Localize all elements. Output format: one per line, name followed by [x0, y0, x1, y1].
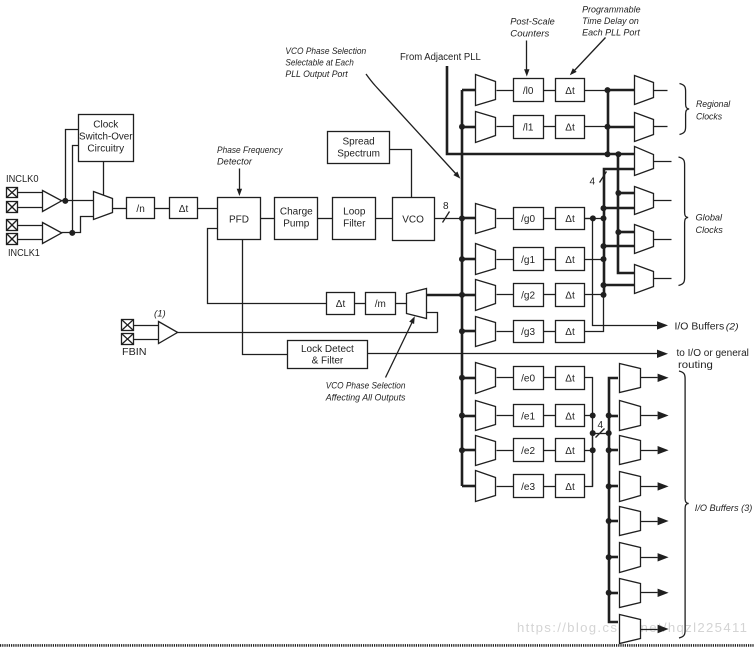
- node junction V2 gmux3: [615, 229, 621, 235]
- svg-text:Δt: Δt: [565, 446, 575, 457]
- mux /g3 phase-select: [476, 317, 496, 347]
- node junction l1: [605, 124, 611, 130]
- arrow I/O buffer output 5: [658, 553, 669, 561]
- svg-text:Affecting All Outputs: Affecting All Outputs: [325, 393, 406, 404]
- svg-text:VCO Phase Selection: VCO Phase Selection: [326, 381, 406, 392]
- svg-text:Programmable: Programmable: [582, 5, 641, 16]
- svg-text:INCLK0: INCLK0: [6, 174, 39, 185]
- svg-text:INCLK1: INCLK1: [8, 248, 40, 259]
- svg-text:VCO: VCO: [402, 215, 424, 226]
- node bus junction /e0: [459, 375, 465, 381]
- delta-t delay /l1: [556, 116, 585, 139]
- svg-text:Δt: Δt: [565, 374, 575, 385]
- svg-text:/g1: /g1: [521, 255, 535, 266]
- mux /g1 phase-select: [476, 244, 496, 275]
- svg-text:Clocks: Clocks: [696, 225, 723, 236]
- wire /g2 mux to counter: [497, 294, 514, 296]
- node junction V3 gmux4: [601, 282, 607, 288]
- svg-text:Δt: Δt: [565, 86, 575, 97]
- wire /e1 counter to delta-t: [544, 415, 556, 417]
- wire global vertical V3 internal-feed: [604, 169, 634, 296]
- node junction V3 gmux3: [601, 243, 607, 249]
- pad FBIN n-input: [122, 334, 134, 345]
- svg-text:8: 8: [443, 201, 449, 212]
- svg-text:FBIN: FBIN: [122, 347, 147, 358]
- wire I/O buffer output 4: [641, 521, 658, 523]
- svg-text:Spectrum: Spectrum: [337, 149, 380, 160]
- node junction adjacent-V2: [615, 151, 621, 157]
- annotation arrow to /l0: [526, 41, 528, 71]
- wire V3 to global mux 2 lower: [604, 207, 634, 210]
- wire FBIN pad2 to buffer: [134, 339, 159, 341]
- delta-t delay /g1: [556, 248, 585, 271]
- wire I/O buffer output 7: [641, 629, 658, 631]
- svg-text:Δt: Δt: [565, 123, 575, 134]
- mux regional clock output 1: [635, 113, 654, 142]
- mux regional clock output 0: [635, 76, 654, 105]
- wire Lock Detect to I/O routing arrow: [368, 353, 658, 355]
- wire /e2 counter to delta-t: [544, 450, 556, 452]
- node junction V3 g2: [601, 292, 607, 298]
- mux /e1 phase-select: [476, 401, 496, 431]
- wire FBIN pad1 to buffer: [134, 325, 159, 327]
- node bus junction /g3: [459, 328, 465, 334]
- node junction V3 g1: [601, 256, 607, 262]
- wire /g2 output to V3: [585, 294, 604, 296]
- wire /e1 mux to counter: [497, 415, 514, 417]
- counter /g2: [514, 284, 544, 307]
- mux /e3 phase-select: [476, 471, 496, 502]
- wire global clock output 3: [654, 278, 672, 280]
- counter /e0: [514, 367, 544, 390]
- node B junction INCLK1: [69, 230, 75, 236]
- node junction bundle connector: [590, 430, 596, 436]
- arrow I/O buffer output 6: [658, 589, 669, 597]
- wire /e0 mux to counter: [497, 377, 514, 379]
- wire e-bundle connector to V4: [593, 433, 609, 435]
- svg-text:Δt: Δt: [565, 482, 575, 493]
- wire regional vertical V1: [607, 90, 610, 154]
- node bus junction /g0: [459, 215, 465, 221]
- wire PFD feedback input: [208, 229, 327, 304]
- svg-text:/e2: /e2: [521, 446, 535, 457]
- wire INCLK1 pad2 to buffer: [18, 239, 43, 241]
- node junction V4 y486: [606, 483, 612, 489]
- counter /g3: [514, 321, 544, 343]
- node bus junction /e1: [459, 413, 465, 419]
- arrow to I/O or general routing: [657, 350, 668, 358]
- svg-text:Each PLL Port: Each PLL Port: [582, 28, 640, 39]
- wire /g0 counter to delta-t: [544, 218, 556, 220]
- node junction V4 y592: [606, 590, 612, 596]
- wire VCO output to phase bus: [435, 218, 463, 220]
- wire /e0 output to bundle: [585, 378, 593, 487]
- mux global clock output 2: [635, 225, 654, 254]
- block Loop Filter: [333, 198, 376, 240]
- wire VCO 8-phase bus vertical: [461, 90, 464, 486]
- svg-text:Clocks: Clocks: [696, 112, 722, 123]
- wire I/O buffer output 6: [641, 592, 658, 594]
- svg-text:/l0: /l0: [523, 86, 534, 97]
- mux /l1 phase-select: [476, 112, 496, 143]
- pad INCLK1 p-input: [7, 220, 18, 231]
- wire /e2 mux to counter: [497, 450, 514, 452]
- wire FBIN buffer output: [178, 332, 438, 334]
- svg-text:Filter: Filter: [343, 219, 366, 230]
- wire bus stub to /e2 mux: [462, 449, 475, 452]
- svg-text:/l1: /l1: [523, 123, 534, 134]
- wire I/O buffer output 3: [641, 486, 658, 488]
- svg-text:4: 4: [590, 177, 596, 188]
- bottom dotted border: [0, 644, 754, 647]
- buffer INCLK0: [43, 191, 62, 212]
- node junction V3 gmux2: [601, 205, 607, 211]
- pad INCLK0 p-input: [7, 188, 18, 198]
- wire junction B to switch-over circuitry: [73, 146, 79, 233]
- svg-text:/e0: /e0: [521, 374, 535, 385]
- wire regional clock output 0: [654, 90, 668, 92]
- svg-text:Switch-Over: Switch-Over: [79, 132, 133, 143]
- delta-t delay /e2: [556, 439, 585, 462]
- wire V4 stub y450: [609, 449, 618, 452]
- svg-text:Δt: Δt: [565, 291, 575, 302]
- pad INCLK1 n-input: [7, 234, 18, 245]
- wire regional clock output 1: [654, 126, 668, 128]
- wire /g0 branch to I/O buffers: [585, 219, 658, 326]
- wire INCLK0 pad2 to buffer: [18, 207, 43, 209]
- wire V2 to global mux 2: [618, 192, 634, 195]
- svg-text:Time Delay on: Time Delay on: [582, 16, 639, 27]
- wire /m to feedback mux: [396, 303, 407, 305]
- node bus junction /g1: [459, 256, 465, 262]
- wire /e3 output to bundle: [585, 434, 593, 487]
- svg-text:Charge: Charge: [280, 207, 313, 218]
- svg-text:Selectable at Each: Selectable at Each: [285, 58, 353, 69]
- mux /e0 phase-select: [476, 363, 496, 394]
- wire feedback mux to phase bus: [426, 294, 462, 297]
- svg-text:Δt: Δt: [565, 255, 575, 266]
- wire I/O buffer output 2: [641, 450, 658, 452]
- node junction bundle e1: [590, 413, 596, 419]
- arrow I/O buffer output 7: [658, 625, 669, 633]
- block Charge Pump: [275, 198, 318, 240]
- svg-text:Δt: Δt: [565, 327, 575, 338]
- delta-t delay /g3: [556, 321, 585, 343]
- svg-text:Spread: Spread: [342, 137, 374, 148]
- wire global vertical V2: [618, 154, 634, 273]
- annotation arrow to PFD: [239, 169, 241, 191]
- block Clock Switch-Over Circuitry: [79, 115, 134, 162]
- wire global clock output 2: [654, 239, 672, 241]
- svg-text:Post-Scale: Post-Scale: [510, 17, 555, 28]
- node junction V4 y450: [606, 447, 612, 453]
- node bus junction /e2: [459, 447, 465, 453]
- mux global clock output 0: [635, 147, 654, 176]
- svg-text:Δt: Δt: [179, 204, 189, 215]
- block /m counter: [366, 293, 396, 315]
- arrow I/O buffer output 2: [658, 446, 669, 454]
- wire /g1 output to V3: [585, 259, 604, 261]
- svg-text:Δt: Δt: [336, 299, 346, 310]
- wire bus stub to /e1 mux: [462, 415, 475, 418]
- delta-t delay /e3: [556, 475, 585, 498]
- wire /g3 counter to delta-t: [544, 331, 556, 333]
- wire /e1 output to bundle: [585, 415, 593, 417]
- wire /l0 mux to counter: [497, 90, 514, 92]
- annotation arrow to delta-t: [574, 38, 606, 72]
- wire V4 stub y415: [609, 415, 618, 418]
- node A junction INCLK0: [62, 198, 68, 204]
- delta-t delay /l0: [556, 79, 585, 102]
- svg-text:routing: routing: [678, 360, 713, 371]
- wire V3 to global mux 4 lower: [604, 284, 634, 287]
- svg-text:PFD: PFD: [229, 215, 249, 226]
- arrow I/O Buffers (2): [657, 321, 668, 329]
- counter /e3: [514, 475, 544, 498]
- svg-text:From Adjacent PLL: From Adjacent PLL: [400, 52, 481, 63]
- brace Regional Clocks: [680, 84, 690, 135]
- wire I/O buffer output 0: [641, 377, 658, 379]
- wire /g1 counter to delta-t: [544, 259, 556, 261]
- svg-text:/e1: /e1: [521, 411, 535, 422]
- wire INCLK1 pad1 to buffer: [18, 225, 43, 227]
- svg-text:/e3: /e3: [521, 482, 535, 493]
- svg-text:/g0: /g0: [521, 214, 535, 225]
- wire /n to delta-t: [155, 208, 170, 210]
- svg-text:Global: Global: [696, 213, 723, 224]
- mux global clock output 3: [635, 265, 654, 294]
- buffer INCLK1: [43, 223, 62, 244]
- wire /e3 counter to delta-t: [544, 486, 556, 488]
- wire From Adjacent PLL: [447, 66, 634, 154]
- wire buffer INCLK0 output to clock mux input 1: [62, 200, 94, 202]
- wire V3 to global mux 3 lower: [604, 245, 634, 248]
- wire PFD to Lock Detect: [243, 240, 288, 355]
- wire buffer INCLK1 output to bend: [62, 217, 94, 233]
- wire PFD to Charge Pump: [261, 218, 275, 220]
- node junction V1 bottom: [605, 151, 611, 157]
- node junction bundle e2: [590, 447, 596, 453]
- mux global clock output 1: [635, 187, 654, 215]
- annotation arrow to phase bus: [366, 74, 457, 175]
- svg-text:Lock Detect: Lock Detect: [301, 344, 354, 355]
- block delta-t input delay: [170, 198, 198, 219]
- node junction V4 connector: [606, 430, 612, 436]
- delta-t delay /e0: [556, 367, 585, 390]
- block VCO: [393, 198, 435, 241]
- wire /l1 counter to delta-t: [544, 126, 556, 128]
- mux /g2 phase-select: [476, 280, 496, 311]
- wire global clock output 1: [654, 200, 672, 202]
- node junction V4 y557: [606, 554, 612, 560]
- mux I/O buffer output 4: [620, 507, 641, 536]
- wire FBIN into feedback mux: [427, 313, 438, 333]
- mux I/O buffer output 1: [620, 401, 641, 431]
- svg-text:/m: /m: [375, 299, 386, 310]
- mux /l0 phase-select: [476, 75, 496, 106]
- wire node to regional clock mux 1: [608, 89, 634, 92]
- svg-text:4: 4: [598, 420, 604, 431]
- wire /g3 mux to counter: [497, 331, 514, 333]
- svg-text:/g2: /g2: [521, 291, 535, 302]
- svg-text:Pump: Pump: [283, 219, 310, 230]
- node junction V4 y415: [606, 413, 612, 419]
- wire /l0 counter to delta-t: [544, 90, 556, 92]
- wire junction A to switch-over circuitry: [66, 130, 79, 201]
- svg-text:& Filter: & Filter: [312, 355, 344, 366]
- counter /l0: [514, 79, 544, 102]
- wire bus stub to /g0 mux: [462, 217, 475, 220]
- wire V2 to global mux 3: [618, 231, 634, 234]
- wire I/O buffer output 5: [641, 557, 658, 559]
- svg-text:(1): (1): [154, 309, 166, 320]
- node bus junction /g2: [459, 292, 465, 298]
- svg-text:Circuitry: Circuitry: [87, 144, 124, 155]
- node junction g0 branch: [590, 215, 596, 221]
- node junction V2 gmux2: [615, 190, 621, 196]
- wire /g0 output to V3: [585, 218, 604, 220]
- mux I/O buffer output 6: [620, 579, 641, 608]
- brace Global Clocks: [679, 157, 689, 286]
- svg-text:Loop: Loop: [343, 207, 366, 218]
- mux feedback phase-select: [407, 289, 427, 319]
- wire V4 stub y592: [609, 592, 618, 595]
- svg-text:Regional: Regional: [696, 99, 731, 110]
- block /n counter: [127, 198, 155, 219]
- wire /g1 mux to counter: [497, 259, 514, 261]
- counter /e2: [514, 439, 544, 462]
- wire /g3 output up to V3: [585, 296, 604, 332]
- arrow I/O buffer output 1: [658, 411, 669, 419]
- wire node to regional clock mux 2: [608, 126, 634, 129]
- mux I/O buffer output 2: [620, 436, 641, 465]
- svg-text:Clock: Clock: [93, 120, 119, 131]
- block Spread Spectrum: [328, 132, 390, 164]
- svg-text:to I/O or general: to I/O or general: [677, 348, 749, 359]
- svg-text:VCO Phase Selection: VCO Phase Selection: [285, 46, 366, 57]
- delta-t delay /g0: [556, 208, 585, 230]
- block Lock Detect and Filter: [288, 341, 368, 369]
- svg-text:I/O Buffers (3): I/O Buffers (3): [695, 503, 753, 514]
- counter /g1: [514, 248, 544, 271]
- wire /g2 counter to delta-t: [544, 294, 556, 296]
- delta-t delay /g2: [556, 284, 585, 307]
- wire /l1 delta-t to node: [585, 126, 608, 128]
- arrow I/O buffer output 3: [658, 482, 669, 490]
- annotation arrow to feedback mux: [386, 322, 413, 378]
- mux /g0 phase-select: [476, 204, 496, 234]
- wire bus bottom corner to /e3 mux: [462, 485, 475, 488]
- wire V4 stub y486: [609, 485, 618, 488]
- svg-text:Δt: Δt: [565, 411, 575, 422]
- wire V4 stub y557: [609, 556, 618, 559]
- svg-text:/g3: /g3: [521, 327, 535, 338]
- mux I/O buffer output 7: [620, 615, 641, 644]
- mux I/O buffer output 0: [620, 364, 641, 393]
- wire INCLK0 pad1 to buffer: [18, 192, 43, 194]
- svg-text:Δt: Δt: [565, 214, 575, 225]
- wire V4 stub y521: [609, 520, 618, 523]
- wire feedback delta-t to /m: [355, 303, 366, 305]
- brace I/O Buffers 3: [679, 371, 689, 638]
- svg-text:/n: /n: [136, 204, 144, 215]
- buffer FBIN: [159, 322, 178, 344]
- svg-text:PLL Output Port: PLL Output Port: [285, 69, 348, 80]
- wire bus stub to /e0 mux: [462, 377, 475, 380]
- node junction V4 y521: [606, 518, 612, 524]
- wire clock mux to /n: [113, 208, 127, 210]
- wire delta-t to PFD: [198, 208, 218, 210]
- wire /g0 mux to counter: [497, 218, 514, 220]
- wire /e2 output to bundle: [585, 450, 593, 452]
- arrow I/O buffer output 0: [658, 374, 669, 382]
- pad INCLK0 n-input: [7, 202, 18, 213]
- delta-t delay /e1: [556, 405, 585, 427]
- mux /e2 phase-select: [476, 436, 496, 466]
- counter /e1: [514, 405, 544, 427]
- counter /l1: [514, 116, 544, 139]
- wire /e0 counter to delta-t: [544, 377, 556, 379]
- block PFD: [218, 198, 261, 240]
- wire Loop Filter to VCO: [376, 218, 393, 220]
- wire /l1 mux to counter: [497, 126, 514, 128]
- wire I/O buffer output 1: [641, 415, 658, 417]
- wire switch-over control to clock mux select: [103, 162, 105, 197]
- wire bus stub to /g1 mux: [462, 258, 475, 261]
- arrow I/O buffer output 4: [658, 517, 669, 525]
- mux I/O buffer output 5: [620, 543, 641, 573]
- wire /e3 mux to counter: [497, 486, 514, 488]
- svg-text:(2): (2): [726, 322, 739, 333]
- wire bus top corner to /l0 mux: [462, 89, 475, 92]
- block delta-t feedback delay: [327, 293, 355, 315]
- wire /l0 delta-t to node: [585, 90, 608, 92]
- pad FBIN p-input: [122, 320, 134, 331]
- svg-text:Counters: Counters: [510, 29, 549, 40]
- node junction V3 g0: [601, 215, 607, 221]
- wire global clock output 0: [654, 161, 672, 163]
- node junction l0: [605, 87, 611, 93]
- wire bus stub to /g3 mux: [462, 330, 475, 333]
- counter /g0: [514, 208, 544, 230]
- wire Charge Pump to Loop Filter: [318, 218, 333, 220]
- svg-text:Detector: Detector: [217, 157, 253, 168]
- mux clock-select: [94, 192, 113, 220]
- svg-text:I/O Buffers: I/O Buffers: [675, 322, 725, 333]
- wire Spread Spectrum to VCO: [390, 150, 412, 198]
- svg-text:Phase Frequency: Phase Frequency: [217, 145, 283, 156]
- wire external vertical V4: [609, 378, 618, 622]
- wire bus stub to /l1 mux: [462, 126, 475, 129]
- mux I/O buffer output 3: [620, 472, 641, 502]
- wire bus stub to /g2 mux: [462, 294, 475, 297]
- node bus junction /l1: [459, 124, 465, 130]
